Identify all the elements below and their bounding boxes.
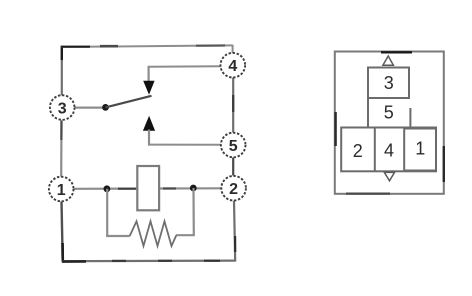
socket outline (pin base view) [335,52,444,194]
pin row pad (pins 2 and 4) [341,128,436,172]
wire: bottom rail dark dash c [204,260,220,262]
wire: top rail dark segment mid [100,45,118,48]
wire: NO contact stem [148,66,150,82]
index triangle bottom [384,172,394,180]
wire: terminal 5 down to terminal 2 [232,158,234,176]
wire: bottom rail dark dash b [158,260,172,262]
divider between pin 2 and pin 4 [374,128,376,172]
svg-text:4: 4 [228,58,237,75]
socket outline dark segment left [334,112,336,146]
terminal 3 [50,95,75,120]
junction dot: left coil node [104,185,111,192]
socket outline dark segment right [443,146,445,182]
wire: 3-1 riser dark segment [60,121,62,140]
wire: terminal 1 down to bottom rail [62,202,63,262]
junction dot: right coil node [190,185,197,192]
junction dot: switch pivot [102,104,109,111]
resistor R (zigzag) [130,221,177,246]
wire: NO contact horizontal to terminal 4 [149,65,221,68]
terminal 5 [221,133,246,158]
wire: top rail dark segment right [196,44,225,46]
svg-text:3: 3 [58,100,67,117]
wire: terminal 3 down to terminal 1 [60,120,62,177]
terminal 4 [221,53,246,78]
wire: NC contact stem [148,130,150,146]
socket outline dark segment top [381,51,412,53]
wire: terminal 3 up to top rail [61,47,63,96]
switch arm (movable contact) [106,96,152,108]
wire: terminal 4 down to terminal 5 [232,78,234,133]
wire: bottom rail up to terminal 2 [234,201,235,262]
wire: coil lead dark segment right [163,187,176,189]
pin 3 pad [368,68,409,99]
wire: bottom rail dark dash a [112,260,126,262]
index triangle top [383,56,394,65]
wire: NC contact horizontal to terminal 5 [148,144,221,146]
svg-text:2: 2 [353,141,363,161]
pin 1 pad [404,129,436,171]
wire: terminal 3 to switch pivot [75,106,107,108]
wire: coil lead dark segment left [118,188,136,190]
wire: terminal 2 riser dark dashes [234,236,236,252]
wire: 4-5 riser dark segment [232,95,234,112]
wire: terminal 3 riser dark segment [61,46,63,60]
svg-text:3: 3 [384,73,394,93]
wire: terminal 1 riser dark segment [61,243,64,262]
NC contact arrow (points up) [143,116,155,131]
wire: top rail drop into terminal 4 [232,45,234,53]
svg-text:2: 2 [229,181,238,198]
NO contact arrow (points down) [143,81,154,95]
wire: bottom rail dark segment left [62,260,86,263]
svg-text:1: 1 [415,139,425,159]
svg-text:5: 5 [229,138,238,155]
svg-text:5: 5 [384,102,394,122]
wire: top rail [61,45,233,47]
svg-text:1: 1 [57,182,66,199]
wire: right node down to resistor [176,188,194,235]
terminal 2 [221,176,246,201]
coil K (relay coil) [137,166,159,210]
terminal 1 [49,177,74,202]
pin 5 slot right edge [409,108,411,128]
svg-text:4: 4 [384,140,394,160]
socket outline dark segment bottom [346,193,390,195]
wire: left node down to resistor [107,189,130,236]
wire: top rail dark segment left [61,46,90,48]
wire: terminal 1 to terminal 2 through coil [74,187,222,190]
wire: bottom rail [62,260,236,263]
pin 5 slot left edge [367,98,369,128]
